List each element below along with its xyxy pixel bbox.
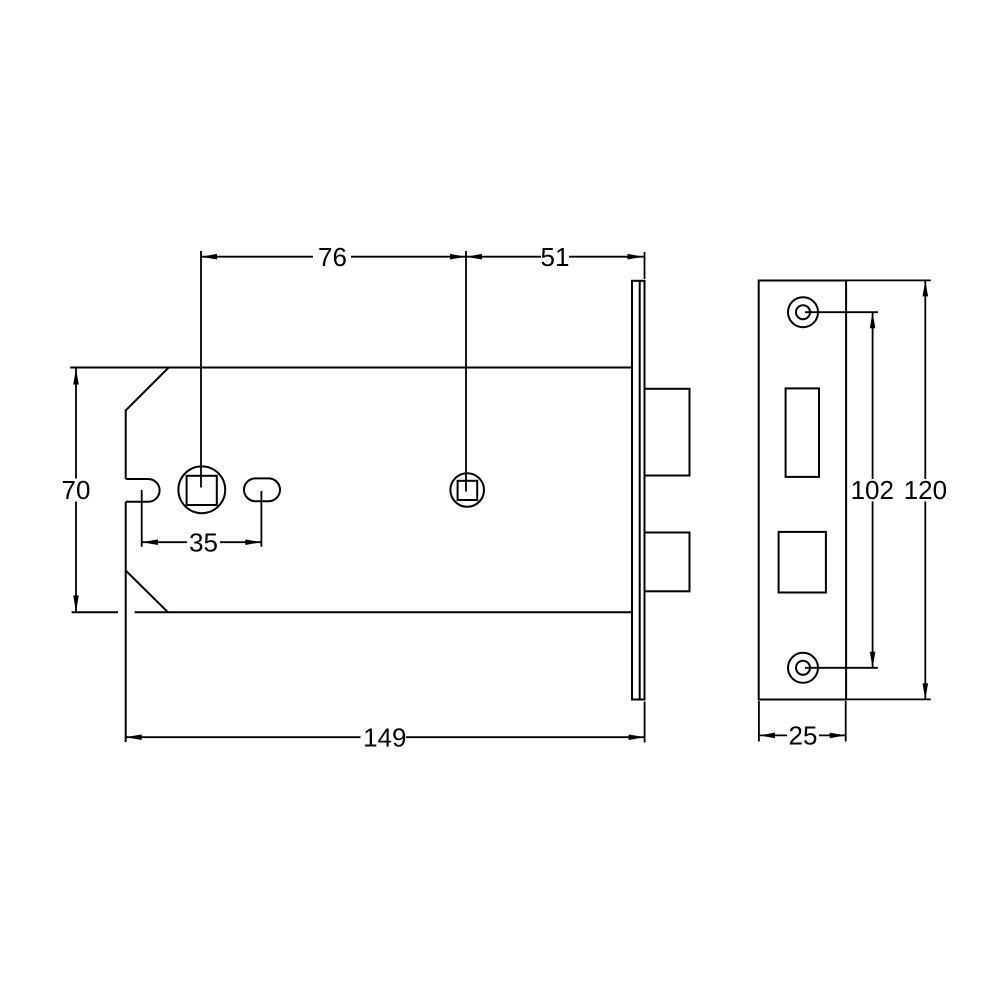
svg-text:51: 51 — [541, 242, 570, 272]
svg-text:102: 102 — [851, 475, 894, 505]
arrowhead 35 right — [245, 539, 261, 545]
bathroom snib follower circle — [450, 473, 484, 507]
svg-text:120: 120 — [904, 475, 947, 505]
svg-text:25: 25 — [789, 721, 818, 751]
faceplate front view outline — [759, 281, 846, 700]
svg-text:70: 70 — [62, 475, 91, 505]
dimension line 102 — [872, 312, 874, 479]
lock case left edge upper segment — [125, 409, 127, 479]
arrowhead 120 top — [923, 280, 929, 296]
lock case top-left chamfer — [126, 368, 169, 411]
spindle follower circle — [178, 466, 225, 513]
svg-text:76: 76 — [318, 242, 347, 272]
arrowhead 76 right — [450, 254, 466, 260]
dimension 25 left extension below faceplate front — [758, 701, 760, 742]
lock case left edge lower segment continuing as 149-dim left extension — [125, 502, 127, 742]
bottom screw hole outer circle — [788, 653, 818, 683]
dimension 51 right extension line above faceplate — [644, 252, 646, 279]
faceplate side view outline — [632, 281, 645, 700]
dimension line 25 — [759, 734, 787, 736]
lock case bottom-left chamfer — [126, 571, 168, 613]
arrowhead 51 left — [466, 254, 482, 260]
dimension 120 top extension from faceplate corner — [846, 279, 931, 281]
bottom screw hole inner circle — [796, 661, 810, 675]
arrowhead 102 bottom — [870, 652, 876, 668]
arrowhead 51 right — [628, 254, 644, 260]
70-dim bottom extension line — [72, 611, 118, 613]
keyhole slot notch in left edge — [126, 479, 160, 502]
arrowhead 120 bottom — [923, 683, 929, 699]
dimension 35 right extension from oblong centre — [260, 491, 262, 547]
snib follower square hole — [458, 481, 478, 500]
latch bolt side view — [645, 389, 690, 476]
faceplate side view inner line — [639, 281, 641, 700]
dimension line 51 — [466, 256, 541, 258]
arrowhead 102 top — [870, 312, 876, 328]
dimension line 149 — [126, 736, 361, 738]
oblong fixing hole — [244, 478, 280, 501]
arrowhead 149 left — [126, 734, 142, 740]
top screw hole outer circle — [788, 297, 818, 327]
deadbolt opening front view — [779, 532, 826, 593]
top screw hole inner circle — [796, 305, 810, 319]
dimension line 76 — [201, 256, 313, 258]
dimension line 35 — [142, 541, 187, 543]
arrowhead 149 right — [629, 734, 645, 740]
arrowhead 70 top — [73, 369, 79, 385]
dimension 25 right extension below faceplate front — [845, 701, 847, 742]
deadbolt side view — [645, 533, 690, 592]
svg-text:149: 149 — [363, 723, 406, 753]
dimension 76/51 shared extension line from snib centre — [465, 251, 467, 492]
arrowhead 25 right — [830, 733, 846, 739]
arrowhead 25 left — [759, 733, 775, 739]
arrowhead 70 bottom — [73, 596, 79, 612]
spindle follower square hole — [187, 476, 217, 505]
latch opening front view — [786, 388, 819, 477]
dimension 102 bottom extension from bottom screw centre — [805, 667, 878, 669]
dimension 120 bottom extension from faceplate corner — [846, 698, 931, 700]
dimension line 70 — [75, 369, 77, 479]
lock case top edge with 70-dim top extension — [70, 367, 632, 369]
arrowhead 35 left — [142, 539, 158, 545]
dimension 102 top extension from top screw centre — [805, 311, 878, 313]
dimension 76 extension line from spindle centre — [200, 251, 202, 488]
lock case bottom edge — [135, 611, 632, 613]
dimension 35 left extension from slot centre — [141, 490, 143, 547]
dimension 149 right extension below faceplate — [644, 702, 646, 743]
dimension line 120 — [924, 280, 926, 479]
arrowhead 76 left — [201, 254, 217, 260]
svg-text:35: 35 — [189, 528, 218, 558]
